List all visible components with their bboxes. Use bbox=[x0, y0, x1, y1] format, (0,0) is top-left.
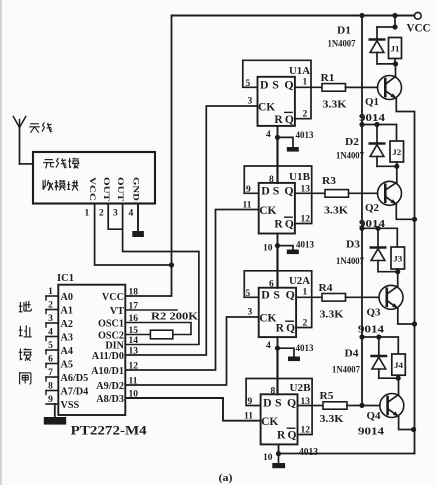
svg-text:S: S bbox=[272, 78, 279, 92]
svg-text:A3: A3 bbox=[61, 333, 73, 344]
node: U2B reset ground node bbox=[276, 451, 281, 456]
U2B pin number 9 bbox=[248, 397, 253, 407]
IC1 pin number 1 bbox=[48, 287, 53, 297]
svg-text:D: D bbox=[261, 288, 270, 302]
svg-text:Q: Q bbox=[287, 396, 296, 410]
wire: U1B feedback Qbar to D bbox=[244, 166, 311, 224]
IC1 pin number 6 bbox=[48, 355, 53, 365]
U1A pin number 5 bbox=[246, 79, 251, 89]
wire: stage2 bottom bar bbox=[377, 165, 397, 167]
wire: pin15 OSC2 to R2 bbox=[125, 334, 150, 336]
receiver pin number 1 bbox=[85, 209, 90, 219]
svg-text:Q: Q bbox=[285, 114, 294, 126]
svg-text:A0: A0 bbox=[61, 292, 73, 303]
node: top rail to J1 branch bbox=[392, 13, 397, 18]
svg-text:CK: CK bbox=[258, 102, 275, 114]
wire: stage2 top bar bbox=[362, 125, 397, 142]
svg-text:7: 7 bbox=[48, 368, 53, 378]
wire: pin17 VT stub bbox=[125, 309, 177, 311]
svg-text:D: D bbox=[263, 396, 272, 410]
svg-text:1N4007: 1N4007 bbox=[336, 152, 364, 162]
svg-text:1N4007: 1N4007 bbox=[332, 366, 360, 376]
IC1 pin name A3 bbox=[61, 333, 73, 344]
svg-text:Q2: Q2 bbox=[365, 203, 379, 214]
svg-text:R: R bbox=[274, 219, 283, 231]
svg-text:R1: R1 bbox=[321, 73, 335, 84]
IC1 pin 4 stub bbox=[46, 337, 58, 341]
svg-text:VCC: VCC bbox=[102, 292, 124, 303]
page edge shadow line bbox=[0, 0, 2, 485]
wire: U1A R node to U1B S bbox=[276, 137, 278, 183]
wire: R4 to Q3 base bbox=[346, 296, 380, 298]
wire: VCC branch rail (feeds relay tops) bbox=[361, 16, 363, 406]
label 1N4007 (D1) bbox=[328, 40, 356, 50]
svg-text:18: 18 bbox=[129, 288, 139, 298]
ground: U2B reset bbox=[272, 463, 285, 468]
U1A pin number 4 bbox=[266, 130, 271, 140]
label 天线 bbox=[29, 122, 52, 132]
wire: Q2 emitter to right rail bbox=[396, 204, 414, 219]
node: branch rail at stage2 bar bbox=[359, 122, 364, 127]
node: branch rail at stage4 bar bbox=[359, 334, 364, 339]
U2A pin number 2 bbox=[303, 319, 308, 329]
svg-text:CK: CK bbox=[259, 313, 276, 325]
svg-text:VCC: VCC bbox=[88, 177, 98, 201]
svg-text:4: 4 bbox=[48, 328, 53, 338]
wire: pin13 A11/D0 to U1A CK bbox=[125, 106, 257, 355]
relay J4 bbox=[392, 354, 406, 375]
label 1N4007 (D4) bbox=[332, 366, 360, 376]
svg-text:OUT: OUT bbox=[116, 177, 126, 201]
wire: VSS to ground bbox=[54, 404, 56, 417]
U2A pin number 3 bbox=[248, 308, 253, 318]
wire: stage4 top bar bbox=[362, 337, 398, 354]
label Q1 bbox=[365, 97, 379, 108]
svg-text:U1B: U1B bbox=[289, 172, 310, 183]
node: U2A reset ground node bbox=[275, 346, 280, 351]
U1B pin number 10 bbox=[263, 244, 273, 254]
ground: U2A reset bbox=[288, 357, 300, 362]
wire: U2A R node to U2B S bbox=[276, 348, 278, 394]
ground: receiver GND bbox=[132, 231, 144, 237]
svg-text:4: 4 bbox=[266, 341, 271, 351]
svg-text:IC1: IC1 bbox=[57, 273, 74, 284]
node: branch rail at stage3 bar bbox=[359, 226, 364, 231]
svg-text:11: 11 bbox=[243, 201, 252, 211]
svg-text:R4: R4 bbox=[319, 283, 334, 294]
resistor R4 bbox=[322, 294, 346, 302]
svg-text:4: 4 bbox=[129, 209, 134, 219]
IC1 pin number 14 bbox=[129, 336, 139, 346]
IC1 pin name VT bbox=[110, 306, 124, 317]
IC1 pin number 13 bbox=[129, 347, 139, 357]
U1A pin number 2 bbox=[303, 110, 308, 120]
wire: pin16 OSC1 to R2 bbox=[125, 323, 191, 335]
wire: J2 bottom lead bbox=[396, 162, 398, 166]
wire: ground stub U1A bbox=[278, 137, 294, 147]
U2B pin number 12 bbox=[301, 426, 311, 436]
node: stage2 collector bbox=[394, 164, 399, 169]
svg-text:A10/D1: A10/D1 bbox=[91, 366, 124, 377]
svg-text:8: 8 bbox=[269, 175, 274, 185]
receiver pin name OUT bbox=[102, 177, 112, 201]
svg-text:(a): (a) bbox=[219, 472, 233, 484]
svg-text:9014: 9014 bbox=[358, 325, 384, 336]
ground: U1B reset bbox=[287, 250, 299, 255]
label D4 bbox=[345, 349, 360, 360]
label 3.3K (R5) bbox=[320, 414, 344, 425]
IC1 pin name A1 bbox=[61, 306, 73, 317]
IC1 pin 6 stub bbox=[46, 364, 58, 368]
svg-text:CK: CK bbox=[261, 416, 278, 428]
svg-text:8: 8 bbox=[48, 382, 53, 392]
IC1 pin name A5 bbox=[61, 360, 73, 371]
node: branch rail at Q4 base line bbox=[359, 403, 364, 408]
svg-text:J3: J3 bbox=[393, 254, 402, 264]
svg-text:OSC1: OSC1 bbox=[98, 319, 124, 330]
U1B pin number 13 bbox=[301, 185, 311, 195]
svg-text:3.3K: 3.3K bbox=[320, 310, 344, 321]
svg-text:6: 6 bbox=[269, 280, 274, 290]
IC1 pin number 10 bbox=[129, 390, 139, 400]
resistor R1 bbox=[322, 84, 346, 92]
svg-text:A4: A4 bbox=[61, 346, 73, 357]
wire: to Q4 collector bbox=[398, 378, 400, 395]
svg-text:A9/D2: A9/D2 bbox=[96, 381, 124, 392]
node: stage3 collector bbox=[395, 269, 400, 274]
svg-text:J2: J2 bbox=[392, 147, 401, 157]
wire: VCC rail drop to IC pin 18 bbox=[125, 16, 171, 297]
wire: stage1 bottom bar bbox=[377, 63, 396, 65]
wire: stage3 bottom bar bbox=[378, 271, 398, 273]
svg-text:4013: 4013 bbox=[296, 343, 314, 354]
wire: U2B R to ground node bbox=[278, 444, 280, 453]
label Q2 bbox=[365, 203, 379, 214]
U2A pin number 5 bbox=[246, 289, 251, 299]
svg-text:D1: D1 bbox=[337, 26, 351, 37]
IC1 box bbox=[58, 285, 125, 415]
svg-text:4013: 4013 bbox=[296, 240, 314, 251]
svg-text:12: 12 bbox=[301, 215, 311, 225]
svg-text:Q: Q bbox=[286, 323, 295, 335]
IC1 pin 9 stub bbox=[46, 403, 58, 405]
svg-text:2: 2 bbox=[99, 209, 104, 219]
wire: ground stub U2A bbox=[278, 348, 295, 356]
label 接闸 (pins) bbox=[19, 348, 32, 384]
IC1 pin 7 stub bbox=[46, 377, 58, 381]
svg-text:Q4: Q4 bbox=[367, 411, 382, 422]
svg-text:5: 5 bbox=[246, 79, 251, 89]
diode D1 1N4007 bbox=[370, 27, 385, 64]
node: D2 cathode tap bbox=[374, 122, 379, 127]
label 9014 (Q3) bbox=[358, 325, 384, 336]
diode D3 1N4007 bbox=[371, 228, 386, 271]
wire: Q3 emitter to right rail bbox=[398, 309, 415, 325]
node: Q4 emitter joins rail bbox=[411, 427, 416, 432]
svg-text:4013: 4013 bbox=[299, 447, 318, 458]
label (a) bbox=[219, 472, 233, 484]
wire: stage3 top bar bbox=[362, 228, 397, 247]
svg-text:S: S bbox=[275, 396, 282, 410]
label D1 bbox=[337, 26, 351, 37]
svg-text:A7/D4: A7/D4 bbox=[61, 387, 89, 398]
op-amp U2A box (4013 D flip-flop) bbox=[259, 288, 296, 338]
IC1 pin name OSC1 bbox=[98, 319, 124, 330]
node: U1A reset ground node bbox=[275, 135, 280, 140]
label 9014 (Q4) bbox=[358, 427, 384, 438]
svg-text:4: 4 bbox=[266, 130, 271, 140]
svg-text:S: S bbox=[273, 288, 280, 302]
U1B pin number 12 bbox=[301, 215, 311, 225]
IC1 pin name A9/D2 bbox=[96, 381, 124, 392]
IC1 pin 2 stub bbox=[46, 310, 58, 314]
svg-text:VCC: VCC bbox=[407, 23, 431, 35]
VCC terminal bbox=[407, 12, 431, 34]
U1B pin number 9 bbox=[246, 185, 251, 195]
svg-text:10: 10 bbox=[263, 244, 273, 254]
IC1 pin 3 stub bbox=[46, 323, 58, 327]
IC1 pin name A0 bbox=[61, 292, 73, 303]
label 4013 (U1A) bbox=[296, 130, 314, 141]
svg-text:D4: D4 bbox=[345, 349, 360, 360]
svg-text:A11/D0: A11/D0 bbox=[92, 351, 124, 362]
svg-text:Q: Q bbox=[284, 78, 293, 92]
label R2 200K bbox=[151, 312, 198, 323]
wire: U1A R to ground node bbox=[277, 126, 279, 137]
svg-text:2: 2 bbox=[303, 319, 308, 329]
label U2B bbox=[290, 383, 311, 394]
U2B pin number 8 bbox=[271, 387, 276, 397]
IC1 pin number 8 bbox=[48, 382, 53, 392]
IC1 pin number 16 bbox=[129, 314, 139, 324]
resistor R5 bbox=[323, 402, 347, 409]
svg-text:Q1: Q1 bbox=[365, 97, 379, 108]
wire: R5 to Q4 base bbox=[347, 405, 380, 407]
label 9014 (Q1) bbox=[359, 113, 385, 124]
relay J2 bbox=[390, 141, 404, 162]
wire: U2A feedback Qbar to D bbox=[244, 271, 311, 328]
IC1 pin name A11/D0 bbox=[92, 351, 124, 362]
wire: Q1 emitter to right rail bbox=[396, 99, 414, 112]
label PT2272-M4 bbox=[71, 424, 148, 438]
wire: stage1 top bar bbox=[377, 26, 395, 28]
wire: U1A feedback Qbar to D bbox=[243, 60, 311, 118]
wire: U1B R to ground node bbox=[277, 234, 279, 246]
wire: pin14 DIN bbox=[125, 344, 199, 346]
svg-text:R5: R5 bbox=[320, 391, 334, 402]
IC1 pin name VCC bbox=[102, 292, 124, 303]
svg-text:A5: A5 bbox=[61, 360, 73, 371]
node: Q2 emitter joins rail bbox=[412, 217, 417, 222]
receiver pin number 4 bbox=[129, 209, 134, 219]
IC1 pin number 2 bbox=[48, 301, 53, 311]
IC1 pin number 18 bbox=[129, 288, 139, 298]
IC1 pin number 15 bbox=[129, 326, 139, 336]
receiver pin name OUT bbox=[116, 177, 126, 201]
op-amp U1B box (4013 D flip-flop) bbox=[259, 183, 295, 234]
svg-text:A8/D3: A8/D3 bbox=[96, 394, 124, 405]
label 3.3K (R1) bbox=[323, 100, 347, 111]
svg-text:3.3K: 3.3K bbox=[324, 206, 348, 217]
svg-text:3: 3 bbox=[248, 97, 253, 107]
IC1 pin number 11 bbox=[129, 377, 138, 387]
label 收模块 bbox=[43, 180, 78, 191]
svg-text:1N4007: 1N4007 bbox=[328, 40, 356, 50]
svg-text:1N4007: 1N4007 bbox=[336, 257, 364, 267]
svg-text:D2: D2 bbox=[345, 137, 359, 148]
relay J1 bbox=[389, 38, 402, 59]
wire: R2 to OSC1 drop bbox=[173, 334, 191, 336]
wire: to Q2 collector bbox=[396, 166, 398, 182]
op-amp U2B box (4013 D flip-flop) bbox=[261, 394, 298, 444]
svg-text:A1: A1 bbox=[61, 306, 73, 317]
svg-text:Q3: Q3 bbox=[367, 308, 381, 319]
U1B pin number 11 bbox=[243, 201, 252, 211]
svg-text:3.3K: 3.3K bbox=[323, 100, 347, 111]
U2A pin number 4 bbox=[266, 341, 271, 351]
IC1 pin name A7/D4 bbox=[61, 387, 89, 398]
wire: receiver pin2 OUT bbox=[108, 204, 122, 230]
label R1 bbox=[321, 73, 335, 84]
wire: J1 bottom lead bbox=[394, 59, 396, 64]
IC1 pin name A8/D3 bbox=[96, 394, 124, 405]
node: D4 cathode tap bbox=[376, 334, 381, 339]
label 4013 (U2A) bbox=[296, 343, 314, 354]
label R5 bbox=[320, 391, 334, 402]
label 地址 (address) bbox=[19, 301, 32, 337]
svg-text:D: D bbox=[260, 78, 269, 92]
receiver pin number 3 bbox=[113, 209, 118, 219]
IC1 pin number 3 bbox=[48, 314, 53, 324]
svg-text:8: 8 bbox=[271, 387, 276, 397]
wire: to Q1 collector bbox=[395, 64, 397, 77]
svg-text:VT: VT bbox=[110, 306, 124, 317]
receiver pin name VCC bbox=[88, 177, 98, 201]
node: D3 cathode tap bbox=[375, 226, 380, 231]
IC1 pin name A2 bbox=[61, 319, 73, 330]
svg-text:3: 3 bbox=[248, 308, 253, 318]
svg-text:U2A: U2A bbox=[289, 276, 310, 287]
wire: U2A Q to R4 bbox=[296, 296, 322, 298]
ground: IC1 VSS bbox=[44, 417, 66, 425]
svg-text:VSS: VSS bbox=[61, 400, 80, 411]
svg-text:1: 1 bbox=[303, 78, 308, 88]
svg-text:PT2272-M4: PT2272-M4 bbox=[71, 424, 148, 438]
svg-text:D3: D3 bbox=[346, 240, 360, 251]
svg-text:2: 2 bbox=[303, 110, 308, 120]
svg-text:10: 10 bbox=[263, 453, 273, 463]
svg-text:9014: 9014 bbox=[359, 113, 385, 124]
transistor Q1 9014 bbox=[378, 76, 402, 100]
svg-text:12: 12 bbox=[301, 426, 311, 436]
wire: stage4 bottom bar bbox=[379, 377, 399, 379]
svg-text:A6/D5: A6/D5 bbox=[61, 373, 89, 384]
relay J3 bbox=[391, 247, 405, 269]
svg-text:9014: 9014 bbox=[358, 427, 384, 438]
svg-text:U1A: U1A bbox=[289, 66, 310, 77]
receiver module box bbox=[33, 152, 155, 204]
wire: pin12 A10/D1 to U1B CK bbox=[125, 210, 258, 371]
op-amp U1A box (4013 D flip-flop) bbox=[258, 77, 295, 126]
wire: J4 bottom lead bbox=[398, 375, 400, 378]
U2B pin number 10 bbox=[263, 453, 273, 463]
svg-text:3.3K: 3.3K bbox=[320, 414, 344, 425]
U1A pin number 1 bbox=[303, 78, 308, 88]
label Q4 bbox=[367, 411, 382, 422]
wire: receiver pin1 VCC to rail bbox=[95, 204, 172, 266]
svg-text:Q: Q bbox=[288, 430, 297, 442]
IC1 pin name VSS bbox=[61, 400, 80, 411]
svg-text:5: 5 bbox=[48, 341, 53, 351]
wire: receiver pin4 GND lead bbox=[137, 204, 139, 232]
IC1 pin number 9 bbox=[48, 395, 53, 405]
svg-text:4013: 4013 bbox=[296, 130, 314, 141]
svg-text:S: S bbox=[273, 184, 280, 198]
IC1 pin number 12 bbox=[129, 362, 139, 372]
label R3 bbox=[322, 176, 336, 187]
wire: U1B R node to U2A S bbox=[276, 246, 278, 288]
label 3.3K (R4) bbox=[320, 310, 344, 321]
IC1 pin 1 stub bbox=[46, 296, 58, 300]
wire: J3 bottom lead bbox=[397, 269, 399, 272]
wire: R1 to Q1 base bbox=[346, 86, 378, 88]
IC1 pin 8 stub bbox=[46, 391, 58, 395]
antenna bbox=[13, 117, 25, 164]
svg-text:6: 6 bbox=[48, 355, 53, 365]
svg-text:Q: Q bbox=[284, 184, 293, 198]
svg-text:9: 9 bbox=[248, 397, 253, 407]
U1A pin number 3 bbox=[248, 97, 253, 107]
transistor Q2 9014 bbox=[378, 181, 402, 205]
wire: R3 to Q2 base bbox=[349, 192, 378, 194]
svg-text:1: 1 bbox=[85, 209, 90, 219]
node: stage4 collector bbox=[396, 376, 401, 381]
svg-text:A2: A2 bbox=[61, 319, 73, 330]
label U1B bbox=[289, 172, 310, 183]
svg-text:U2B: U2B bbox=[290, 383, 311, 394]
svg-text:3: 3 bbox=[48, 314, 53, 324]
label 1N4007 (D3) bbox=[336, 257, 364, 267]
svg-text:R3: R3 bbox=[322, 176, 336, 187]
label R4 bbox=[319, 283, 334, 294]
svg-text:1: 1 bbox=[48, 287, 53, 297]
wire: pin10 A8/D3 to U2B CK bbox=[125, 398, 260, 421]
svg-text:J1: J1 bbox=[391, 44, 400, 54]
IC1 pin number 4 bbox=[48, 328, 53, 338]
svg-text:R: R bbox=[274, 114, 283, 126]
IC1 pin 5 stub bbox=[46, 350, 58, 354]
U2A pin number 6 bbox=[269, 280, 274, 290]
node: stage1 collector bbox=[393, 61, 398, 66]
svg-text:GND: GND bbox=[132, 177, 142, 201]
ground: U1A reset bbox=[287, 147, 299, 152]
U2B pin number 11 bbox=[244, 412, 253, 422]
svg-text:1: 1 bbox=[303, 288, 308, 298]
IC1 pin name A4 bbox=[61, 346, 73, 357]
IC1 pin name OSC2 bbox=[98, 331, 124, 342]
wire: bottom return to U2B ground bbox=[279, 453, 415, 455]
svg-text:R: R bbox=[276, 323, 285, 335]
receiver pin number 2 bbox=[99, 209, 104, 219]
label U2A bbox=[289, 276, 310, 287]
label Q3 bbox=[367, 308, 381, 319]
U2A pin number 1 bbox=[303, 288, 308, 298]
wire: ground stem U2B bbox=[278, 454, 280, 463]
IC1 pin name DIN bbox=[105, 341, 124, 352]
svg-text:11: 11 bbox=[244, 412, 253, 422]
node: Q3 emitter joins rail bbox=[412, 321, 417, 326]
wire: Q4 emitter to right rail bbox=[399, 417, 414, 430]
